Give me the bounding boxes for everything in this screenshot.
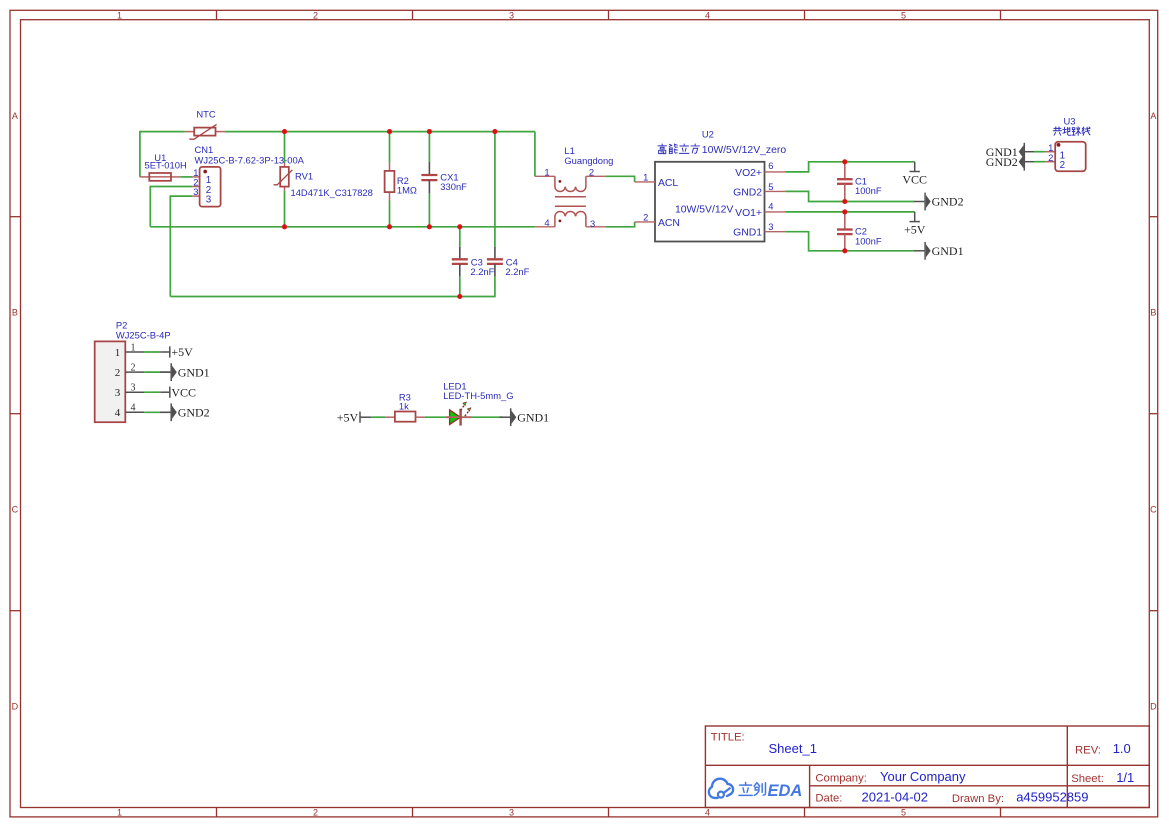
svg-text:VO1+: VO1+ (735, 208, 762, 219)
svg-text:1/1: 1/1 (1116, 770, 1134, 785)
svg-text:4: 4 (544, 217, 549, 228)
power flag VCC (902, 162, 927, 187)
svg-text:B: B (1150, 308, 1156, 318)
svg-text:2: 2 (313, 807, 318, 817)
connector CN1 WJ25C-B-7.62-3P-13-00A (192, 144, 304, 207)
junction RV1 bottom (bottom rail) (282, 224, 287, 229)
wire: U3 pin1 (1034, 151, 1045, 153)
varistor RV1 14D471K_C317828 (274, 132, 373, 227)
resistor R2 1M (385, 132, 417, 227)
capacitor C3 2.2nF (452, 227, 495, 297)
junction CX1 top (top rail) (427, 129, 432, 134)
svg-text:A: A (1150, 111, 1156, 121)
capacitor C2 100nF (837, 212, 882, 251)
svg-text:LED-TH-5mm_G: LED-TH-5mm_G (443, 390, 513, 401)
svg-text:5: 5 (901, 807, 906, 817)
svg-text:Sheet:: Sheet: (1071, 773, 1104, 785)
title block texts (711, 731, 1134, 805)
LED LED1 LED-TH-5mm_G (443, 380, 513, 425)
svg-text:GND1: GND1 (517, 410, 549, 424)
svg-text:3: 3 (590, 218, 595, 229)
svg-text:CN1: CN1 (195, 144, 214, 155)
junction CX1 bottom (bottom rail) (427, 224, 432, 229)
fuse U1 5ET-010H (140, 152, 187, 181)
svg-text:2: 2 (1048, 152, 1053, 163)
svg-text:2: 2 (1060, 160, 1065, 171)
svg-text:2021-04-02: 2021-04-02 (862, 789, 929, 804)
svg-text:GND2: GND2 (986, 155, 1018, 169)
svg-text:EDA: EDA (768, 782, 803, 800)
capacitor CX1 330nF (421, 132, 467, 227)
svg-text:5: 5 (901, 11, 906, 21)
svg-text:A: A (12, 111, 18, 121)
wire: VO2+ to VCC (785, 162, 914, 172)
wire: fuse output to CN1 pin 1 (180, 176, 192, 178)
svg-text:+5V: +5V (171, 345, 193, 359)
svg-text:GND2: GND2 (178, 406, 210, 420)
svg-text:WJ25C-B-7.62-3P-13-00A: WJ25C-B-7.62-3P-13-00A (195, 155, 305, 166)
junction C1 top (VCC net) (842, 159, 847, 164)
wire: bottom AC rail (150, 226, 535, 228)
svg-text:1: 1 (117, 11, 122, 21)
power flag +5V (R3 feed) (337, 410, 372, 424)
svg-text:4: 4 (768, 201, 773, 212)
svg-text:1MΩ: 1MΩ (397, 185, 417, 196)
svg-text:NTC: NTC (196, 109, 215, 120)
thermistor NTC (185, 109, 225, 140)
junction R2 top (top rail) (387, 129, 392, 134)
capacitor C4 2.2nF (487, 132, 530, 278)
P2 pin 2 (125, 371, 144, 373)
capacitor C1 100nF (837, 162, 882, 202)
svg-text:3: 3 (131, 383, 136, 394)
svg-text:+5V: +5V (337, 410, 359, 424)
svg-text:B: B (12, 308, 18, 318)
ground flag GND1 (914, 242, 964, 260)
wire: transformer pin1 feed (534, 132, 536, 177)
svg-text:Date:: Date: (815, 793, 842, 805)
svg-text:330nF: 330nF (440, 181, 467, 192)
power flag +5V (904, 212, 926, 237)
svg-text:1.0: 1.0 (1113, 741, 1131, 756)
svg-text:5: 5 (768, 181, 773, 192)
U2 chinese label (658, 144, 786, 156)
power flag VCC (P2.3) (170, 385, 196, 399)
U2 pin names (658, 168, 762, 239)
wire: +5V to R3 (371, 416, 385, 418)
resistor R3 1k (385, 391, 424, 421)
svg-text:C: C (1150, 505, 1157, 515)
wire: LED1 to GND1 (472, 416, 503, 418)
power flag +5V (P2.1) (170, 345, 193, 359)
wire: top AC rail (140, 131, 185, 133)
svg-text:3: 3 (509, 11, 514, 21)
svg-text:4: 4 (131, 403, 136, 414)
wire: R3 to LED1 (425, 416, 446, 418)
svg-text:Company:: Company: (815, 772, 867, 784)
wire: GND2 net (785, 191, 914, 201)
wire: L1 pin3 to U2 ACN (606, 222, 635, 227)
svg-text:1: 1 (643, 172, 648, 183)
wire: U3 pin2 (1034, 161, 1045, 163)
svg-text:TITLE:: TITLE: (711, 731, 745, 743)
P2 pin 1 (125, 351, 144, 353)
svg-text:GND2: GND2 (932, 195, 964, 209)
svg-text:2: 2 (131, 362, 136, 373)
svg-text:2: 2 (115, 367, 121, 379)
svg-text:WJ25C-B-4P: WJ25C-B-4P (116, 329, 171, 340)
jumper U3 (1045, 115, 1086, 171)
ground flag GND1 (LED) (500, 408, 550, 426)
svg-text:14D471K_C317828: 14D471K_C317828 (291, 187, 373, 198)
wire: L1 pin2 to U2 ACL (606, 176, 635, 182)
ground flag GND1 (U3) (986, 143, 1034, 161)
svg-text:1: 1 (131, 342, 136, 353)
svg-text:GND1: GND1 (932, 244, 964, 258)
ground flag GND2 (914, 193, 964, 211)
svg-text:Sheet_1: Sheet_1 (769, 741, 817, 756)
svg-text:Drawn By:: Drawn By: (952, 793, 1004, 805)
svg-text:+5V: +5V (904, 223, 926, 237)
svg-text:U2: U2 (702, 128, 714, 139)
svg-text:VCC: VCC (902, 172, 927, 186)
svg-text:2.2nF: 2.2nF (505, 266, 529, 277)
svg-text:2: 2 (643, 212, 648, 223)
wire: CN1 pin 2 to bottom rail (150, 187, 192, 227)
svg-text:3: 3 (193, 186, 198, 197)
svg-text:GND2: GND2 (733, 187, 762, 198)
svg-text:5ET-010H: 5ET-010H (145, 159, 187, 170)
svg-text:3: 3 (768, 221, 773, 232)
svg-text:4: 4 (705, 807, 710, 817)
svg-text:2.2nF: 2.2nF (470, 266, 494, 277)
svg-text:2: 2 (589, 166, 594, 177)
svg-text:ACL: ACL (658, 178, 678, 189)
wire: GND1 net (785, 232, 914, 251)
junction C2 top (+5V net) (842, 209, 847, 214)
svg-text:4: 4 (115, 407, 121, 419)
svg-text:VCC: VCC (171, 385, 196, 399)
svg-text:3: 3 (115, 387, 121, 399)
svg-text:GND1: GND1 (733, 228, 762, 239)
svg-text:REV:: REV: (1075, 744, 1101, 756)
svg-text:4: 4 (705, 11, 710, 21)
svg-text:D: D (1150, 702, 1157, 712)
svg-text:Guangdong: Guangdong (564, 155, 613, 166)
ground flag GND2 (U3) (986, 153, 1034, 171)
svg-text:C: C (12, 505, 19, 515)
EasyEDA logo (709, 779, 802, 801)
connector P2 WJ25C-B-4P (95, 320, 171, 423)
svg-text:ACN: ACN (658, 218, 680, 229)
svg-text:10W/5V/12V: 10W/5V/12V (675, 204, 733, 215)
title block (705, 726, 1149, 808)
svg-text:2: 2 (313, 11, 318, 21)
svg-text:6: 6 (768, 160, 773, 171)
junction C4 top (top rail) (492, 129, 497, 134)
P2 pin 4 (125, 411, 144, 413)
op-amp/module U2 10W/5V/12V_zero (635, 128, 786, 241)
svg-text:U3: U3 (1064, 115, 1076, 126)
wire: left drop to fuse U1 (139, 131, 141, 177)
svg-text:100nF: 100nF (855, 185, 882, 196)
wire: VO1+ to +5V (785, 211, 914, 213)
junction C3 top (bottom rail) (457, 224, 462, 229)
P2 pin 3 (125, 391, 144, 393)
junction R2 bottom (bottom rail) (387, 224, 392, 229)
svg-text:100nF: 100nF (855, 235, 882, 246)
svg-text:a459952859: a459952859 (1016, 789, 1088, 804)
svg-text:1: 1 (544, 166, 549, 177)
U3 chinese label (1053, 127, 1090, 136)
svg-text:1: 1 (117, 807, 122, 817)
svg-text:3: 3 (206, 194, 212, 205)
svg-text:1k: 1k (399, 401, 409, 412)
junction RV1 top (top rail) (282, 129, 287, 134)
ground flag GND1 (P2.2) (160, 363, 210, 381)
svg-text:RV1: RV1 (295, 170, 313, 181)
svg-text:3: 3 (509, 807, 514, 817)
svg-text:GND1: GND1 (178, 365, 210, 379)
U2 pin numbers (643, 160, 773, 232)
ground flag GND2 (P2.4) (160, 403, 210, 421)
transformer L1 Guangdong (535, 145, 614, 229)
svg-text:VO2+: VO2+ (735, 168, 762, 179)
junction C1 bottom (GND2 net) (842, 199, 847, 204)
junction C2 bottom (GND1 net) (842, 248, 847, 253)
svg-text:D: D (12, 702, 19, 712)
svg-text:1: 1 (115, 347, 121, 359)
wire: CN1 pin 3 drop to lower rail (170, 196, 192, 296)
junction C3 bottom (lower rail) (457, 294, 462, 299)
svg-text:10W/5V/12V_zero: 10W/5V/12V_zero (702, 145, 787, 156)
svg-text:Your Company: Your Company (880, 769, 966, 784)
wire: lower rail (C3/C4 return) (170, 276, 495, 296)
